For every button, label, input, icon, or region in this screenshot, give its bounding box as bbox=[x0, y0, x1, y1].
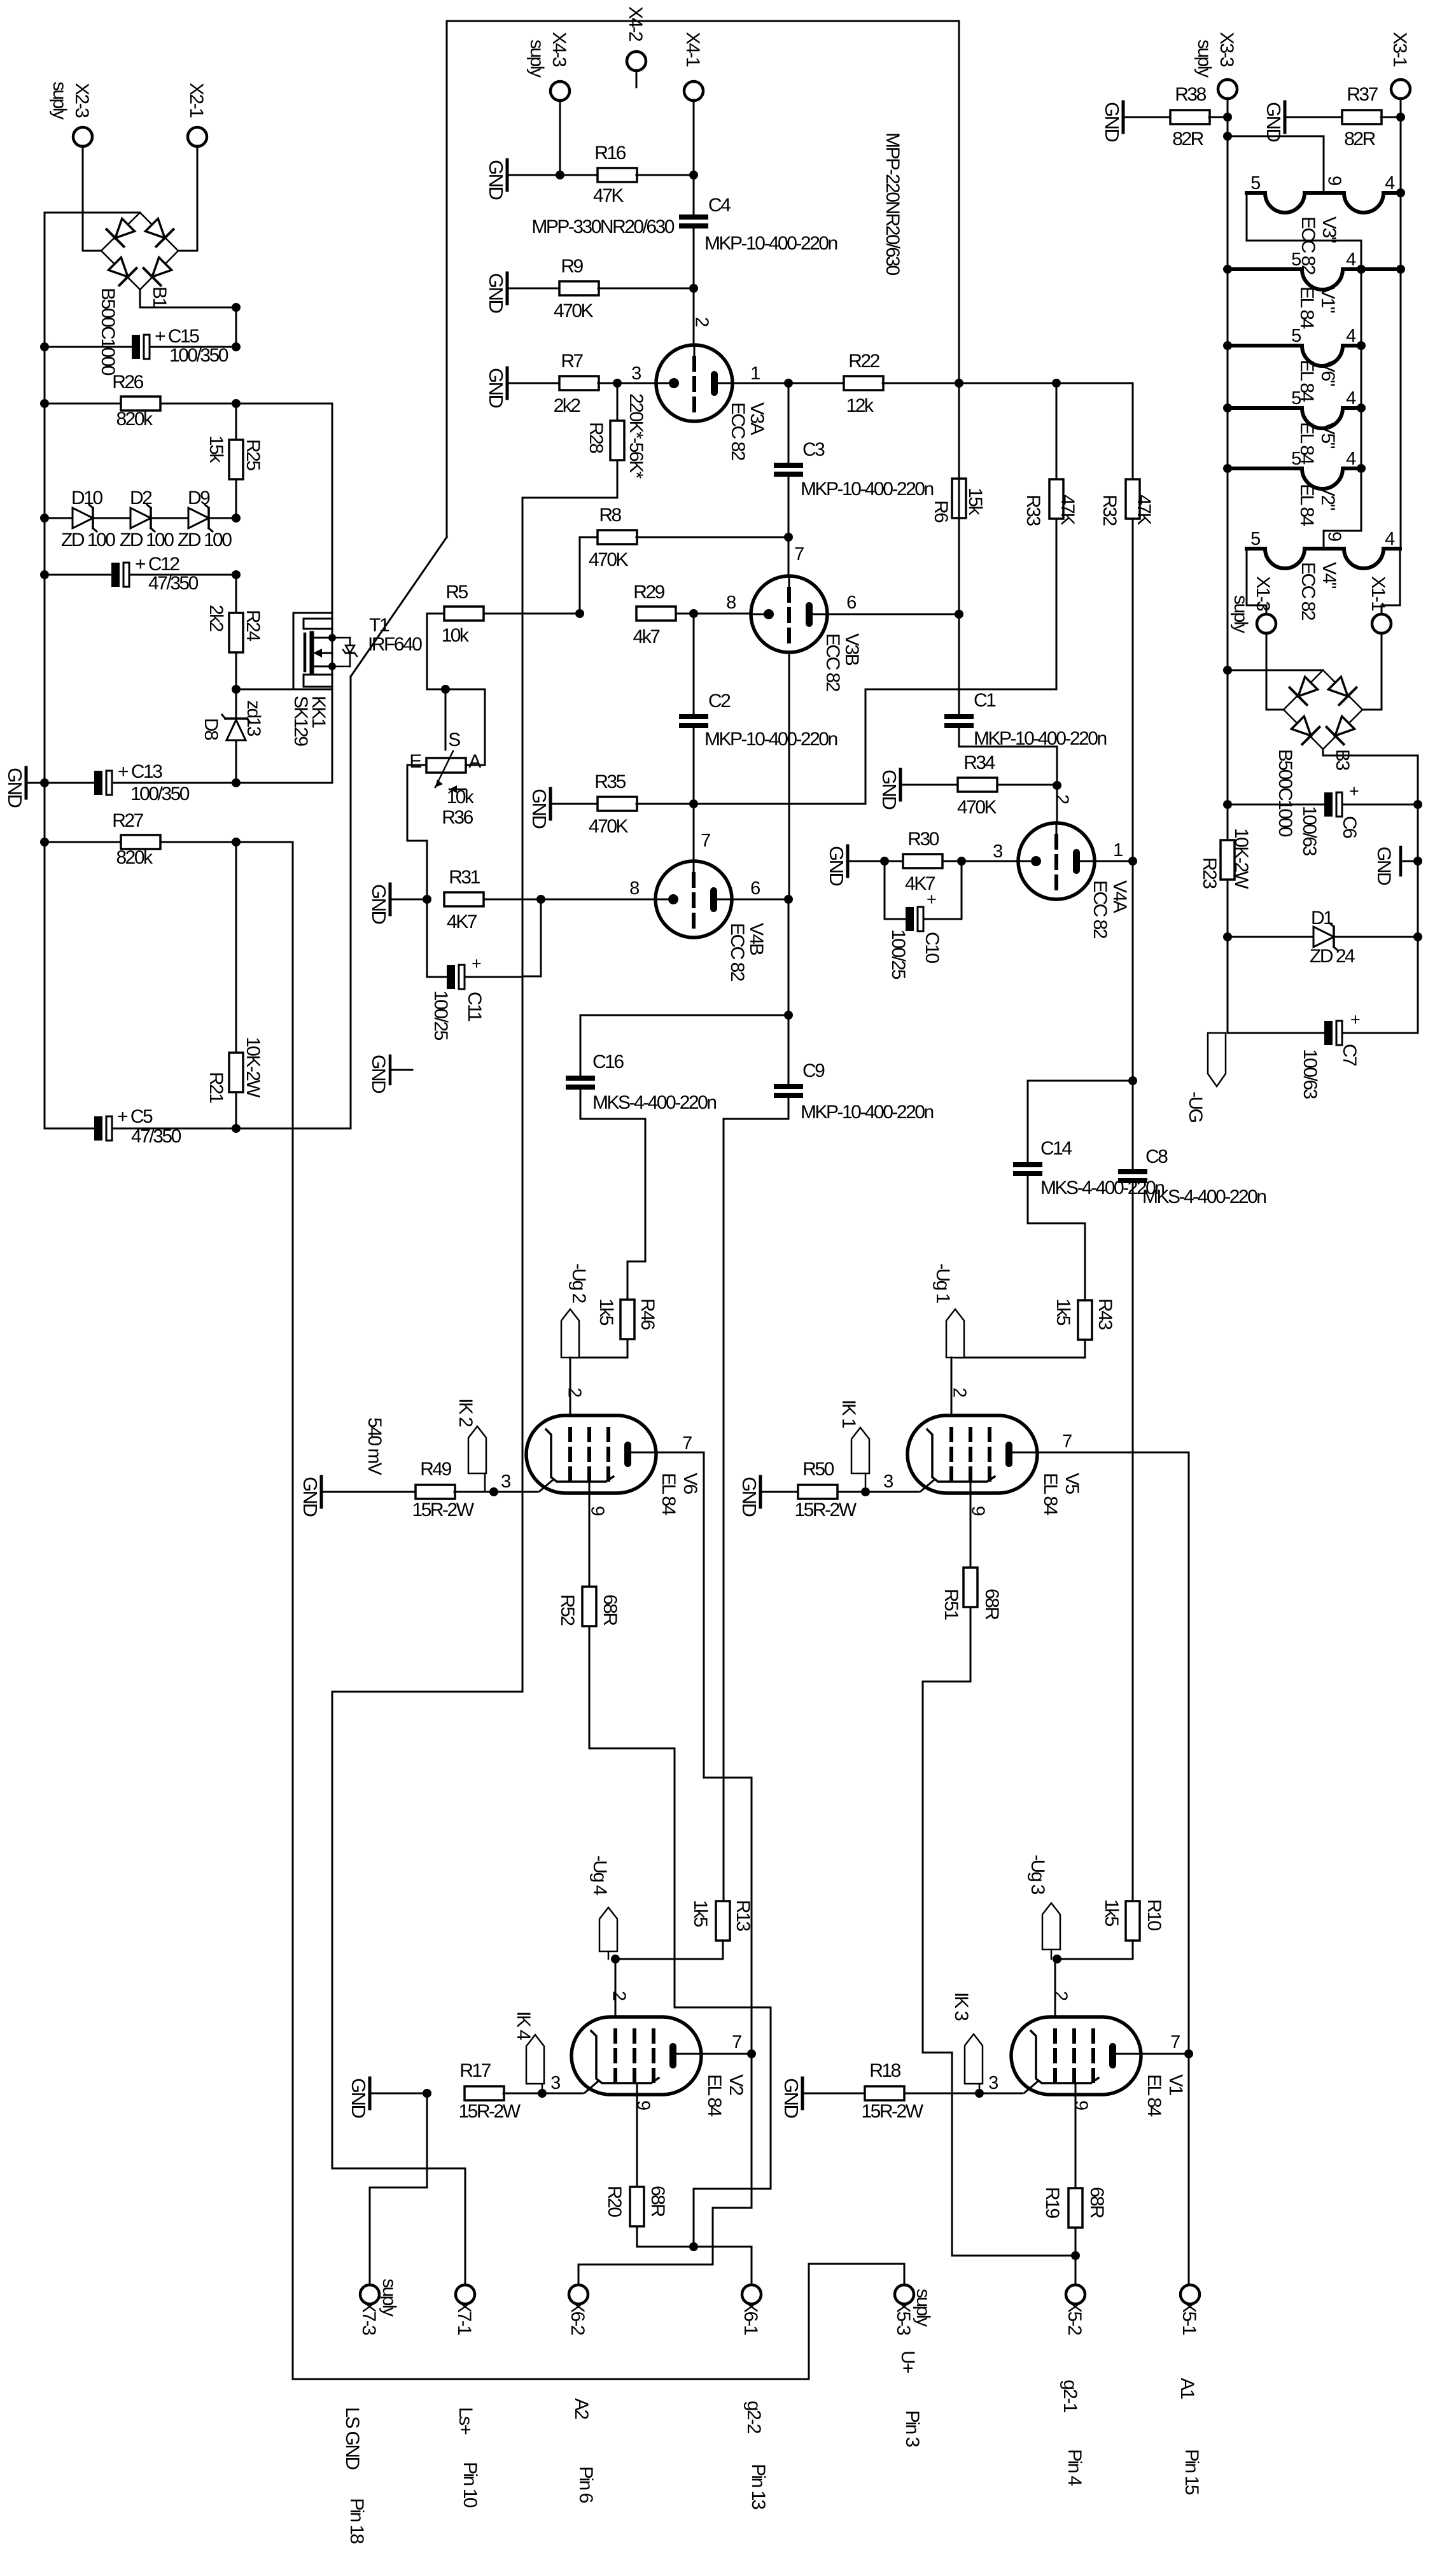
svg-text:X1-1: X1-1 bbox=[1368, 576, 1389, 611]
svg-text:g2-2: g2-2 bbox=[743, 2401, 764, 2434]
svg-text:2: 2 bbox=[609, 1991, 629, 2000]
svg-text:D2: D2 bbox=[130, 488, 152, 509]
svg-text:ECC 82: ECC 82 bbox=[727, 923, 748, 981]
svg-text:15k: 15k bbox=[206, 435, 227, 463]
svg-text:100/25: 100/25 bbox=[430, 990, 451, 1041]
svg-text:68R: 68R bbox=[647, 2186, 668, 2217]
svg-text:R20: R20 bbox=[604, 2186, 625, 2217]
svg-text:9: 9 bbox=[587, 1506, 608, 1515]
svg-text:9: 9 bbox=[1324, 176, 1345, 185]
svg-text:+ C13: + C13 bbox=[118, 761, 162, 782]
svg-text:1k5: 1k5 bbox=[690, 1900, 711, 1927]
svg-text:R46: R46 bbox=[637, 1298, 658, 1330]
svg-text:MKP-10-400-220n: MKP-10-400-220n bbox=[801, 479, 933, 500]
svg-text:1k5: 1k5 bbox=[1101, 1899, 1122, 1927]
svg-text:GND: GND bbox=[780, 2078, 802, 2118]
svg-text:10k: 10k bbox=[447, 787, 475, 808]
svg-text:GND: GND bbox=[1373, 846, 1394, 885]
svg-text:C6: C6 bbox=[1339, 816, 1360, 838]
svg-text:A: A bbox=[468, 751, 481, 772]
svg-text:IRF640: IRF640 bbox=[368, 634, 422, 655]
svg-text:R8: R8 bbox=[599, 505, 621, 526]
svg-text:4k7: 4k7 bbox=[633, 626, 661, 647]
svg-text:GND: GND bbox=[4, 768, 26, 808]
svg-text:-Ug 2: -Ug 2 bbox=[568, 1263, 589, 1303]
svg-text:MKP-10-400-220n: MKP-10-400-220n bbox=[704, 729, 837, 750]
svg-text:suply: suply bbox=[1230, 595, 1251, 633]
svg-text:V5: V5 bbox=[1061, 1473, 1082, 1494]
svg-text:R26: R26 bbox=[112, 372, 143, 393]
svg-text:suply: suply bbox=[526, 39, 547, 78]
svg-text:+: + bbox=[472, 954, 481, 973]
svg-text:D1: D1 bbox=[1311, 908, 1333, 929]
svg-text:-UG: -UG bbox=[1185, 1092, 1206, 1123]
svg-text:MPP-220NR20/630: MPP-220NR20/630 bbox=[882, 132, 903, 275]
svg-text:ZD 100: ZD 100 bbox=[61, 530, 115, 551]
svg-text:GND: GND bbox=[485, 368, 507, 408]
svg-text:2: 2 bbox=[1051, 1991, 1071, 2000]
svg-text:EL 84: EL 84 bbox=[1296, 286, 1317, 329]
svg-text:2k2: 2k2 bbox=[554, 395, 581, 416]
svg-text:GND: GND bbox=[368, 884, 390, 924]
svg-text:4K7: 4K7 bbox=[447, 911, 477, 932]
svg-text:3: 3 bbox=[631, 363, 641, 384]
svg-text:7: 7 bbox=[1170, 2032, 1180, 2053]
svg-text:R33: R33 bbox=[1023, 495, 1044, 526]
svg-text:15k: 15k bbox=[965, 488, 986, 516]
svg-text:12k: 12k bbox=[846, 395, 874, 416]
svg-text:R52: R52 bbox=[557, 1594, 578, 1626]
svg-text:ZD 100: ZD 100 bbox=[120, 530, 174, 551]
svg-text:47/350: 47/350 bbox=[131, 1126, 181, 1147]
svg-text:suply: suply bbox=[49, 81, 70, 120]
svg-text:1: 1 bbox=[1113, 840, 1123, 860]
svg-text:470K: 470K bbox=[554, 300, 594, 321]
svg-text:Pin 18: Pin 18 bbox=[346, 2498, 367, 2544]
svg-text:6: 6 bbox=[846, 593, 856, 613]
svg-text:15R-2W: 15R-2W bbox=[412, 1499, 474, 1520]
svg-text:470K: 470K bbox=[589, 816, 629, 837]
svg-text:9: 9 bbox=[633, 2100, 654, 2110]
svg-text:zd13: zd13 bbox=[243, 700, 264, 736]
svg-text:V1: V1 bbox=[1165, 2074, 1186, 2096]
svg-text:ECC 82: ECC 82 bbox=[1298, 216, 1319, 275]
svg-text:R31: R31 bbox=[449, 867, 480, 888]
svg-text:R50: R50 bbox=[802, 1459, 834, 1480]
svg-text:2k2: 2k2 bbox=[206, 605, 227, 632]
svg-text:7: 7 bbox=[701, 831, 710, 851]
svg-text:540 mV: 540 mV bbox=[364, 1417, 385, 1475]
svg-text:220K*-56K*: 220K*-56K* bbox=[626, 393, 647, 479]
svg-text:X2-1: X2-1 bbox=[186, 83, 207, 118]
svg-text:R49: R49 bbox=[420, 1459, 451, 1480]
svg-text:R10: R10 bbox=[1144, 1899, 1165, 1930]
svg-text:V1": V1" bbox=[1317, 286, 1338, 313]
svg-text:V6": V6" bbox=[1317, 360, 1338, 386]
svg-text:IK 2: IK 2 bbox=[455, 1398, 476, 1427]
svg-text:4: 4 bbox=[1346, 449, 1356, 469]
svg-text:9: 9 bbox=[1324, 531, 1345, 541]
svg-text:ECC 82: ECC 82 bbox=[1089, 880, 1110, 939]
svg-text:C14: C14 bbox=[1040, 1138, 1072, 1159]
svg-text:R7: R7 bbox=[561, 351, 583, 372]
svg-text:U+: U+ bbox=[897, 2350, 918, 2373]
svg-text:100/350: 100/350 bbox=[169, 345, 228, 366]
svg-text:C11: C11 bbox=[464, 992, 485, 1022]
svg-text:X6-1: X6-1 bbox=[740, 2300, 761, 2335]
svg-text:4: 4 bbox=[1346, 388, 1356, 409]
svg-text:ECC 82: ECC 82 bbox=[822, 633, 843, 692]
svg-text:9: 9 bbox=[968, 1506, 988, 1515]
svg-text:8: 8 bbox=[726, 593, 736, 613]
svg-text:4: 4 bbox=[1385, 529, 1395, 549]
svg-text:R21: R21 bbox=[206, 1072, 227, 1103]
svg-text:D9: D9 bbox=[188, 488, 210, 509]
svg-text:T1: T1 bbox=[369, 615, 389, 636]
svg-text:GND: GND bbox=[738, 1477, 760, 1517]
svg-text:47K: 47K bbox=[593, 185, 624, 206]
svg-text:X3-3: X3-3 bbox=[1216, 32, 1237, 67]
svg-text:3: 3 bbox=[993, 841, 1002, 862]
svg-text:C3: C3 bbox=[802, 439, 825, 460]
svg-text:X4-2: X4-2 bbox=[625, 6, 646, 41]
svg-text:Pin 10: Pin 10 bbox=[459, 2462, 480, 2508]
svg-text:15R-2W: 15R-2W bbox=[458, 2101, 521, 2122]
svg-text:-Ug 4: -Ug 4 bbox=[589, 1855, 610, 1895]
svg-text:+: + bbox=[1350, 1010, 1360, 1029]
svg-text:suply: suply bbox=[913, 2289, 934, 2327]
svg-text:100/63: 100/63 bbox=[1299, 806, 1320, 856]
svg-text:5: 5 bbox=[1291, 249, 1301, 270]
svg-text:R6: R6 bbox=[930, 500, 951, 523]
svg-text:3: 3 bbox=[501, 1471, 510, 1492]
svg-text:MKS-4-400-220n: MKS-4-400-220n bbox=[592, 1092, 716, 1113]
svg-text:Pin 6: Pin 6 bbox=[575, 2466, 596, 2503]
svg-text:V2": V2" bbox=[1317, 484, 1338, 510]
svg-text:5: 5 bbox=[1291, 388, 1301, 409]
svg-text:R34: R34 bbox=[963, 752, 995, 773]
svg-text:IK 3: IK 3 bbox=[951, 1992, 972, 2021]
svg-text:R29: R29 bbox=[633, 582, 664, 603]
svg-text:R16: R16 bbox=[594, 143, 626, 164]
svg-text:V2: V2 bbox=[725, 2074, 746, 2096]
svg-text:B3: B3 bbox=[1332, 749, 1353, 771]
svg-text:V4A: V4A bbox=[1109, 880, 1130, 913]
svg-text:4: 4 bbox=[1346, 249, 1356, 270]
svg-text:R24: R24 bbox=[242, 610, 263, 641]
svg-text:Pin 3: Pin 3 bbox=[902, 2410, 923, 2447]
svg-text:MKP-10-400-220n: MKP-10-400-220n bbox=[801, 1102, 933, 1123]
svg-text:9: 9 bbox=[1071, 2100, 1091, 2110]
svg-text:R23: R23 bbox=[1199, 857, 1220, 888]
svg-text:10k: 10k bbox=[442, 625, 470, 646]
svg-text:X3-1: X3-1 bbox=[1389, 32, 1410, 67]
svg-text:ECC 82: ECC 82 bbox=[727, 402, 748, 461]
svg-text:7: 7 bbox=[732, 2032, 741, 2053]
svg-text:R19: R19 bbox=[1042, 2187, 1063, 2218]
svg-text:R27: R27 bbox=[112, 810, 143, 831]
svg-text:S: S bbox=[448, 729, 460, 750]
svg-text:4: 4 bbox=[1385, 173, 1395, 193]
svg-text:suply: suply bbox=[379, 2279, 400, 2317]
svg-text:LS GND: LS GND bbox=[342, 2407, 363, 2470]
svg-text:5: 5 bbox=[1250, 529, 1260, 549]
svg-text:C2: C2 bbox=[708, 691, 731, 712]
svg-text:X4-3: X4-3 bbox=[549, 32, 570, 67]
svg-text:X1-3: X1-3 bbox=[1252, 576, 1273, 611]
svg-text:C9: C9 bbox=[802, 1060, 825, 1081]
svg-text:R9: R9 bbox=[561, 256, 583, 277]
svg-text:V6: V6 bbox=[680, 1473, 701, 1494]
svg-text:GND: GND bbox=[878, 769, 900, 810]
svg-text:C16: C16 bbox=[592, 1051, 624, 1072]
svg-text:100/63: 100/63 bbox=[1299, 1049, 1320, 1099]
svg-text:R18: R18 bbox=[869, 2060, 900, 2081]
svg-text:3: 3 bbox=[550, 2073, 560, 2093]
svg-text:1k5: 1k5 bbox=[1053, 1298, 1074, 1326]
svg-text:15R-2W: 15R-2W bbox=[794, 1499, 857, 1520]
svg-text:IK 4: IK 4 bbox=[513, 2011, 534, 2040]
svg-text:R5: R5 bbox=[445, 582, 468, 603]
svg-text:+ C15: + C15 bbox=[155, 326, 199, 347]
svg-text:MPP-330NR20/630: MPP-330NR20/630 bbox=[531, 216, 674, 237]
svg-text:2: 2 bbox=[1052, 794, 1072, 804]
svg-text:suply: suply bbox=[1194, 39, 1215, 78]
svg-text:10K-2W: 10K-2W bbox=[1231, 828, 1252, 890]
svg-text:GND: GND bbox=[528, 789, 550, 829]
svg-text:+ C5: + C5 bbox=[117, 1106, 153, 1127]
svg-text:470K: 470K bbox=[957, 797, 997, 818]
svg-text:X5-3: X5-3 bbox=[893, 2300, 914, 2335]
svg-text:R32: R32 bbox=[1099, 495, 1120, 526]
svg-text:1k5: 1k5 bbox=[596, 1298, 617, 1326]
svg-text:D8: D8 bbox=[200, 718, 221, 740]
svg-text:3: 3 bbox=[988, 2073, 998, 2093]
svg-text:R22: R22 bbox=[848, 351, 879, 372]
svg-text:5: 5 bbox=[1250, 173, 1260, 193]
svg-text:47/350: 47/350 bbox=[148, 573, 199, 594]
svg-text:C10: C10 bbox=[921, 932, 942, 963]
svg-text:GND: GND bbox=[347, 2078, 370, 2118]
svg-text:V4": V4" bbox=[1319, 562, 1340, 589]
svg-text:GND: GND bbox=[1101, 102, 1123, 142]
svg-text:3: 3 bbox=[883, 1471, 893, 1492]
svg-text:E: E bbox=[409, 751, 421, 772]
svg-text:820k: 820k bbox=[116, 409, 153, 430]
svg-text:1: 1 bbox=[750, 363, 760, 384]
svg-text:+: + bbox=[927, 890, 936, 909]
svg-text:R35: R35 bbox=[594, 771, 626, 792]
svg-text:EL 84: EL 84 bbox=[1144, 2074, 1165, 2117]
svg-text:7: 7 bbox=[1062, 1431, 1072, 1452]
svg-text:GND: GND bbox=[368, 1055, 389, 1093]
svg-text:R51: R51 bbox=[941, 1589, 962, 1620]
svg-text:V3": V3" bbox=[1319, 216, 1340, 243]
svg-text:100/350: 100/350 bbox=[130, 783, 190, 804]
svg-text:B1: B1 bbox=[149, 286, 170, 308]
svg-text:A1: A1 bbox=[1177, 2378, 1198, 2399]
svg-text:C1: C1 bbox=[974, 690, 996, 711]
svg-text:B500C1000: B500C1000 bbox=[1275, 749, 1296, 837]
svg-text:2: 2 bbox=[564, 1387, 585, 1397]
svg-text:4: 4 bbox=[1346, 326, 1356, 346]
svg-text:C7: C7 bbox=[1339, 1044, 1360, 1066]
svg-text:Pin 4: Pin 4 bbox=[1064, 2449, 1085, 2486]
svg-text:D10: D10 bbox=[71, 488, 102, 509]
svg-text:ZD 100: ZD 100 bbox=[178, 530, 232, 551]
svg-text:-Ug 1: -Ug 1 bbox=[932, 1263, 953, 1303]
svg-text:R13: R13 bbox=[732, 1900, 753, 1931]
svg-text:15R-2W: 15R-2W bbox=[861, 2101, 923, 2122]
svg-text:R43: R43 bbox=[1095, 1298, 1116, 1330]
svg-text:820k: 820k bbox=[116, 847, 153, 868]
svg-text:2: 2 bbox=[949, 1387, 970, 1397]
svg-text:R37: R37 bbox=[1347, 84, 1378, 105]
svg-text:g2-1: g2-1 bbox=[1060, 2380, 1081, 2413]
svg-text:KK1: KK1 bbox=[308, 696, 329, 728]
svg-text:68R: 68R bbox=[1086, 2187, 1107, 2218]
svg-text:+: + bbox=[1349, 782, 1359, 801]
svg-text:R30: R30 bbox=[907, 829, 939, 850]
svg-text:GND: GND bbox=[299, 1477, 321, 1517]
svg-text:68R: 68R bbox=[599, 1594, 620, 1626]
svg-text:V4B: V4B bbox=[746, 923, 767, 955]
svg-text:8: 8 bbox=[629, 878, 639, 899]
svg-text:R17: R17 bbox=[459, 2060, 491, 2081]
svg-text:C8: C8 bbox=[1145, 1146, 1168, 1167]
svg-text:-Ug 3: -Ug 3 bbox=[1027, 1855, 1048, 1895]
svg-text:68R: 68R bbox=[981, 1589, 1002, 1620]
svg-text:X4-1: X4-1 bbox=[682, 32, 703, 67]
svg-text:C4: C4 bbox=[708, 195, 731, 216]
svg-text:GND: GND bbox=[485, 273, 507, 313]
svg-text:100/25: 100/25 bbox=[888, 929, 909, 980]
svg-text:MKS-4-400-220n: MKS-4-400-220n bbox=[1040, 1177, 1164, 1198]
svg-text:MKP-10-400-220n: MKP-10-400-220n bbox=[974, 728, 1106, 749]
svg-text:+ C12: + C12 bbox=[135, 554, 179, 575]
svg-text:10K-2W: 10K-2W bbox=[242, 1037, 263, 1099]
svg-text:ECC 82: ECC 82 bbox=[1298, 562, 1319, 621]
svg-text:2: 2 bbox=[692, 317, 712, 327]
svg-text:Pin 13: Pin 13 bbox=[748, 2464, 769, 2510]
svg-text:R38: R38 bbox=[1175, 84, 1206, 105]
svg-text:V3A: V3A bbox=[746, 402, 767, 435]
svg-text:7: 7 bbox=[682, 1433, 692, 1454]
svg-text:X2-3: X2-3 bbox=[71, 83, 92, 118]
svg-text:V5": V5" bbox=[1317, 422, 1338, 449]
svg-text:82R: 82R bbox=[1172, 129, 1203, 150]
svg-text:5: 5 bbox=[1291, 326, 1301, 346]
svg-text:82R: 82R bbox=[1344, 129, 1375, 150]
svg-text:GND: GND bbox=[825, 846, 848, 886]
svg-text:GND: GND bbox=[485, 160, 507, 200]
svg-text:X5-2: X5-2 bbox=[1064, 2300, 1085, 2335]
svg-text:R28: R28 bbox=[585, 422, 606, 453]
svg-text:ZD 24: ZD 24 bbox=[1310, 946, 1355, 967]
svg-text:V3B: V3B bbox=[841, 633, 862, 666]
svg-text:47K: 47K bbox=[1133, 495, 1154, 525]
svg-text:EL 84: EL 84 bbox=[658, 1473, 679, 1515]
svg-text:6: 6 bbox=[750, 878, 760, 899]
svg-text:A2: A2 bbox=[571, 2398, 592, 2420]
svg-text:R25: R25 bbox=[242, 439, 263, 470]
svg-text:MKP-10-400-220n: MKP-10-400-220n bbox=[704, 233, 837, 254]
svg-text:R36: R36 bbox=[442, 807, 473, 828]
svg-text:EL 84: EL 84 bbox=[1040, 1473, 1061, 1515]
svg-text:X5-1: X5-1 bbox=[1179, 2300, 1200, 2335]
svg-text:X6-2: X6-2 bbox=[567, 2300, 588, 2335]
svg-text:Ls+: Ls+ bbox=[455, 2407, 476, 2435]
svg-text:47K: 47K bbox=[1057, 495, 1078, 525]
svg-text:Pin 15: Pin 15 bbox=[1181, 2449, 1202, 2495]
svg-text:B500C1000: B500C1000 bbox=[97, 288, 118, 376]
svg-text:5: 5 bbox=[1291, 449, 1301, 469]
svg-text:7: 7 bbox=[794, 544, 804, 565]
svg-text:X7-1: X7-1 bbox=[454, 2300, 475, 2335]
svg-text:IK 1: IK 1 bbox=[838, 1400, 859, 1428]
svg-text:470K: 470K bbox=[589, 549, 629, 570]
svg-text:X7-3: X7-3 bbox=[358, 2300, 379, 2335]
svg-text:EL 84: EL 84 bbox=[1296, 484, 1317, 526]
svg-text:EL 84: EL 84 bbox=[704, 2074, 725, 2117]
